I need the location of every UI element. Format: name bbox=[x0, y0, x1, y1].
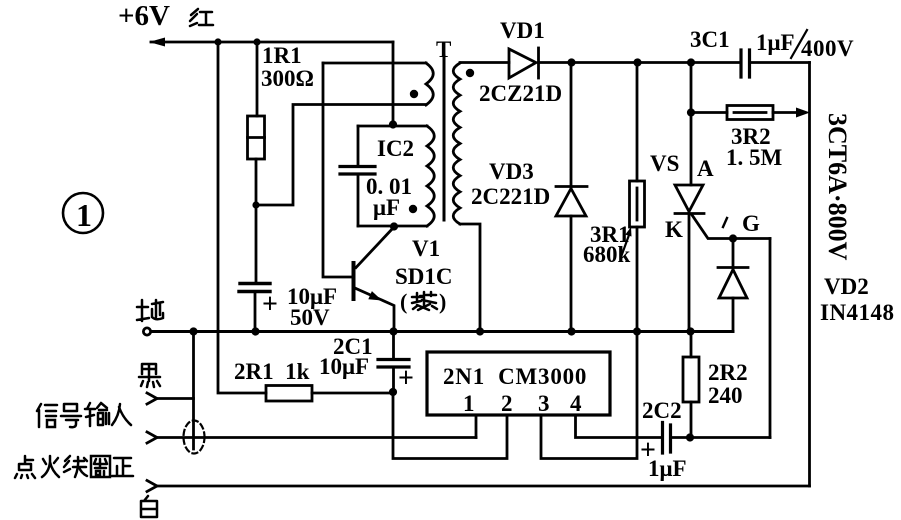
svg-text:3: 3 bbox=[538, 391, 550, 416]
svg-text:IN4148: IN4148 bbox=[820, 300, 895, 325]
capacitor 3C1 bbox=[741, 50, 750, 77]
svg-text:μF: μF bbox=[373, 195, 400, 220]
wire ground down branch bbox=[192, 332, 195, 450]
junction dot 2C2 right bbox=[686, 433, 694, 441]
svg-text:+: + bbox=[398, 363, 414, 394]
node terminal white wire bbox=[147, 481, 157, 492]
label hao bbox=[61, 404, 81, 427]
capacitor 0.01uF plates bbox=[340, 167, 375, 175]
svg-text:50V: 50V bbox=[290, 305, 330, 330]
svg-text:300Ω: 300Ω bbox=[261, 66, 314, 91]
junction dot at 218,42 bbox=[214, 38, 221, 45]
transformer polarity dot primary upper bbox=[410, 90, 418, 98]
svg-text:1: 1 bbox=[76, 197, 92, 233]
node ground terminal bbox=[143, 328, 150, 335]
wire VD1 output rail bbox=[539, 61, 742, 64]
svg-text:1μF: 1μF bbox=[756, 30, 795, 55]
wire base branch vertical bbox=[323, 63, 352, 277]
label dian bbox=[15, 456, 35, 478]
transformer secondary winding bbox=[453, 63, 460, 224]
label zi (purple) inside parens bbox=[412, 292, 437, 310]
twisted pair ellipse bbox=[184, 421, 205, 454]
junction dot 393,331 bbox=[389, 327, 397, 335]
wire 1R1 bottom lead bbox=[255, 159, 258, 205]
svg-text:2R1 1k: 2R1 1k bbox=[234, 359, 310, 384]
svg-text:240: 240 bbox=[708, 383, 743, 408]
winding IC2 loop bottom bbox=[358, 225, 427, 228]
svg-text:VD1: VD1 bbox=[500, 18, 545, 43]
svg-text:SD1C: SD1C bbox=[395, 264, 453, 289]
junction node at 256,205 bbox=[252, 201, 259, 208]
IC 2N1 CM3000 box bbox=[427, 352, 610, 415]
junction dot 3R1 top bbox=[633, 58, 641, 66]
resistor 2R2 leads bbox=[690, 332, 693, 438]
transistor V1 emitter wire bbox=[356, 289, 394, 332]
svg-text:10μF: 10μF bbox=[319, 354, 369, 379]
capacitor 2C1 plates bbox=[378, 360, 409, 368]
node terminal black wire bbox=[147, 393, 157, 404]
transistor V1 emitter arrow bbox=[368, 291, 382, 300]
wire gate loop right vertical bbox=[769, 239, 772, 438]
svg-text:1μF: 1μF bbox=[648, 456, 687, 481]
svg-text:2N1 CM3000: 2N1 CM3000 bbox=[443, 364, 587, 389]
junction dot gate 733,239 bbox=[729, 234, 737, 242]
label quan bbox=[91, 456, 110, 477]
junction dot 691,112 bbox=[687, 108, 695, 116]
svg-text:+: + bbox=[262, 289, 278, 320]
svg-text:): ) bbox=[439, 289, 446, 314]
transformer polarity dot IC2 bbox=[409, 205, 417, 213]
junction dot 256,331 bbox=[251, 327, 259, 335]
svg-text:(: ( bbox=[400, 289, 407, 314]
svg-text:2CZ21D: 2CZ21D bbox=[479, 81, 562, 106]
svg-text:680k: 680k bbox=[583, 242, 631, 267]
wire VD1 rail to 3C1 branch bbox=[687, 58, 695, 66]
wire IC2 loop left with cap gap bbox=[357, 126, 360, 226]
svg-text:V1: V1 bbox=[412, 236, 440, 261]
junction dot 194,331 bbox=[189, 327, 197, 335]
wire right rail bbox=[808, 63, 811, 487]
transistor V1 base bar bbox=[352, 263, 356, 299]
winding IC2 loop top bbox=[358, 125, 427, 128]
svg-text:2: 2 bbox=[501, 391, 513, 416]
label hei (black) bbox=[139, 364, 160, 387]
svg-text:3CT6A·800V: 3CT6A·800V bbox=[823, 113, 852, 261]
CJK glyphs drawn as strokes bbox=[15, 9, 437, 517]
wire secondary top to VD1 bbox=[460, 61, 509, 64]
wire thyristor anode branch bbox=[690, 63, 693, 186]
capacitor 2C2 plates bbox=[663, 423, 671, 454]
capacitor C 10uF/50V plates bbox=[239, 284, 270, 292]
wire pin2 stub to 2C1 node bbox=[393, 392, 507, 459]
label shu bbox=[85, 403, 109, 426]
transformer T primary upper winding bbox=[426, 63, 433, 105]
svg-text:4: 4 bbox=[570, 391, 582, 416]
resistor 1R1 bbox=[248, 116, 265, 159]
transformer polarity dot secondary bbox=[466, 69, 474, 77]
wire bottom rail bbox=[157, 485, 810, 488]
svg-text:G: G bbox=[742, 211, 760, 236]
transistor V1 collector wire bbox=[356, 227, 394, 268]
wire +6V rail to IC2 winding top bbox=[392, 42, 395, 124]
wire from node to primary winding bottom bbox=[256, 105, 426, 206]
resistor 3R1 bbox=[636, 63, 639, 182]
label hong (red) bbox=[190, 9, 213, 26]
capacitor 2C1 leads bbox=[392, 332, 395, 393]
svg-text:+6V: +6V bbox=[118, 0, 170, 32]
diode VD2 bbox=[732, 239, 735, 269]
label xian bbox=[64, 456, 87, 477]
svg-text:1: 1 bbox=[463, 391, 475, 416]
svg-text:1R1: 1R1 bbox=[262, 43, 302, 68]
junction dot 2C1 bottom bbox=[389, 388, 397, 396]
diode VD1 bbox=[509, 49, 536, 78]
wire +6V rail bbox=[151, 41, 393, 44]
wire pin3 stub to ground bbox=[541, 332, 637, 459]
svg-text:1. 5M: 1. 5M bbox=[726, 145, 783, 170]
svg-text:VD2: VD2 bbox=[824, 274, 869, 299]
svg-text:2C221D: 2C221D bbox=[471, 184, 550, 209]
resistor 2R2 bbox=[683, 357, 699, 402]
svg-text:2R2: 2R2 bbox=[708, 360, 748, 385]
wire black terminal to ground branch bbox=[157, 397, 194, 400]
wire capacitor 10uF top lead bbox=[255, 205, 258, 283]
svg-text:A: A bbox=[697, 156, 714, 181]
arrow 3R2 into right rail bbox=[796, 108, 810, 118]
wire 2R1 right lead bbox=[312, 392, 393, 395]
label bai (white) bbox=[141, 496, 157, 517]
comma mark before G bbox=[723, 218, 727, 227]
label huo bbox=[42, 456, 59, 477]
junction dot at 257,42 bbox=[253, 38, 260, 45]
resistor 2R1 bbox=[266, 386, 312, 402]
transformer core bbox=[443, 56, 446, 220]
svg-text:3C1: 3C1 bbox=[690, 27, 730, 52]
junction dot 480,331 bbox=[476, 327, 484, 335]
wire 2C2 right to gate loop bbox=[671, 436, 771, 439]
wire 10uF bottom lead bbox=[254, 292, 257, 332]
label xin bbox=[37, 404, 57, 427]
wire 1R1 top lead bbox=[256, 42, 259, 116]
wire 3R2 right lead bbox=[773, 111, 800, 114]
svg-text:K: K bbox=[665, 217, 683, 242]
junction dot IC2 bottom bbox=[390, 222, 398, 230]
label ru bbox=[112, 404, 131, 425]
label zheng bbox=[112, 458, 133, 476]
node terminal signal input bbox=[147, 432, 157, 443]
node +6V arrow terminal bbox=[149, 38, 165, 47]
wire ground rail bbox=[152, 330, 733, 333]
svg-text:2C2: 2C2 bbox=[642, 398, 682, 423]
wire signal input line bbox=[157, 436, 476, 439]
thyristor gate wire bbox=[692, 215, 770, 239]
svg-text:T: T bbox=[436, 37, 451, 62]
svg-text:400V: 400V bbox=[801, 36, 854, 61]
label di (ground) bbox=[137, 300, 163, 321]
annotation arrow at 3R1 bbox=[621, 235, 629, 257]
diode VD3 bbox=[570, 63, 573, 188]
svg-text:IC2: IC2 bbox=[377, 136, 414, 161]
svg-text:VS: VS bbox=[650, 151, 679, 176]
wire primary top line to base branch bbox=[323, 62, 426, 65]
junction dot 637,331 bbox=[633, 327, 641, 335]
junction dot VD3 top bbox=[567, 58, 575, 66]
junction dot 571,331 bbox=[567, 327, 575, 335]
thyristor VS bbox=[675, 185, 703, 212]
junction dot IC2 top bbox=[389, 120, 397, 128]
wire 3R2 left lead bbox=[691, 111, 727, 114]
wire +6V down-left branch to 2R1 bbox=[218, 42, 266, 393]
wire pin4 stub to 2C2 bbox=[576, 415, 663, 438]
junction dot 690,331 bbox=[686, 327, 694, 335]
resistor 3R2 bbox=[727, 106, 773, 120]
wire 3C1 right to right rail bbox=[750, 61, 810, 64]
svg-text:VD3: VD3 bbox=[489, 159, 534, 184]
figure number circle 1 bbox=[63, 193, 103, 233]
wire secondary bottom lead bbox=[460, 224, 480, 332]
wire pin1 stub to signal line bbox=[475, 415, 478, 438]
winding IC2 arcs bbox=[427, 126, 434, 226]
